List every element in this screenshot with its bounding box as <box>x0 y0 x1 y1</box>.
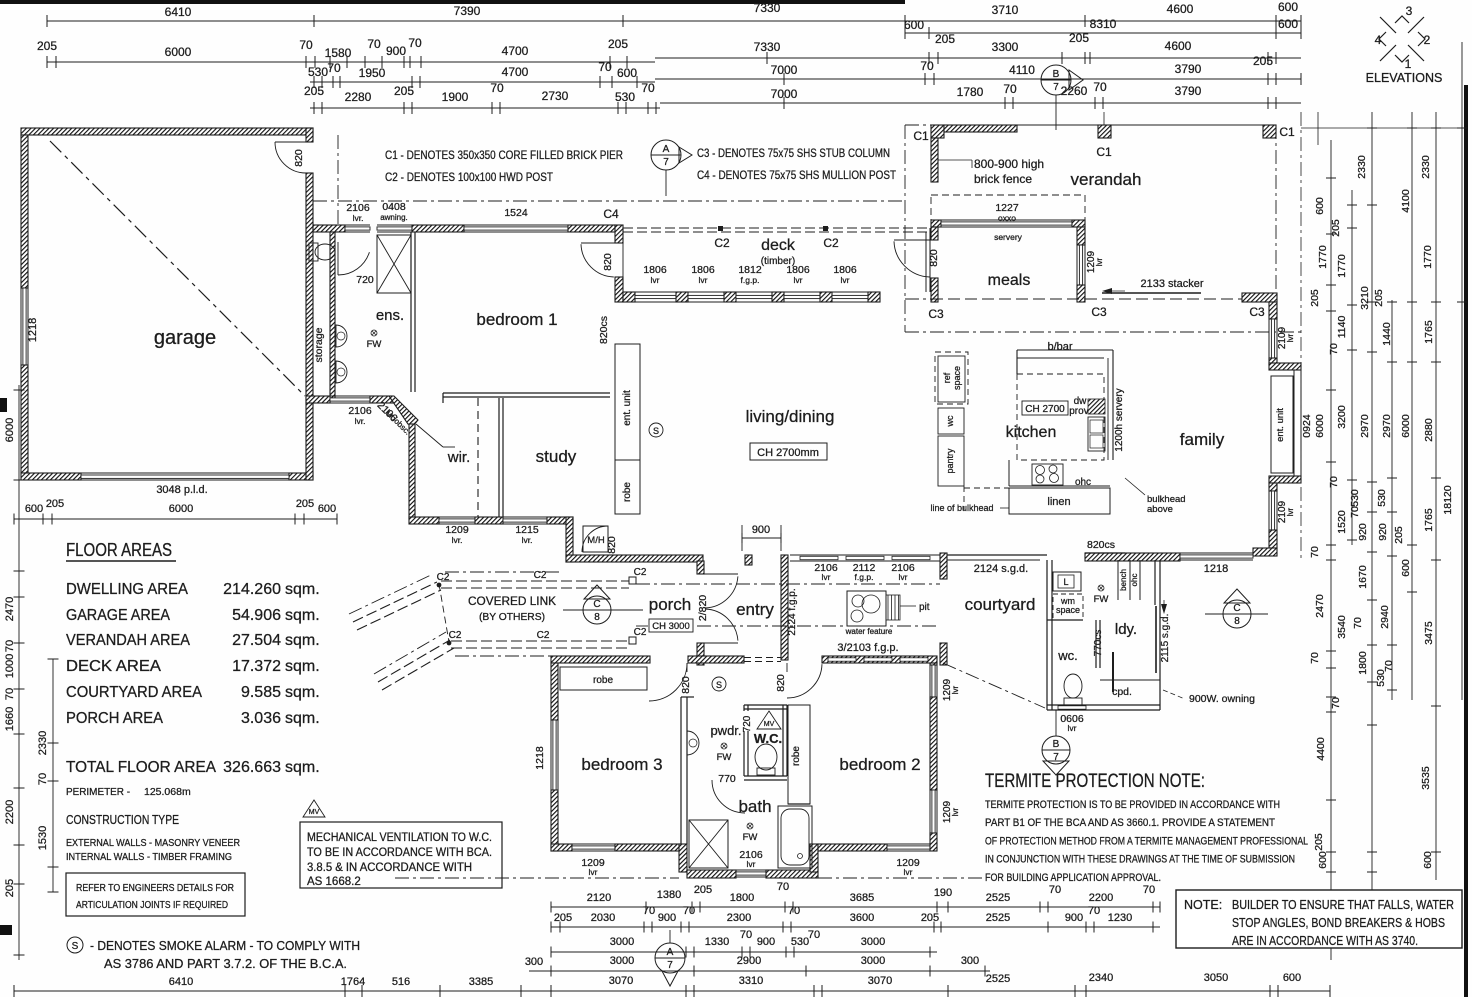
pantry box <box>938 436 964 486</box>
svg-text:lvr: lvr <box>841 275 850 285</box>
svg-text:4600: 4600 <box>1167 2 1194 16</box>
svg-text:1330: 1330 <box>705 936 729 948</box>
svg-text:920: 920 <box>1357 523 1369 541</box>
covered link diagonal pair upper <box>353 582 437 622</box>
servery window dashed box <box>931 195 1085 227</box>
svg-text:water feature: water feature <box>845 627 893 636</box>
svg-text:3475: 3475 <box>1423 621 1435 645</box>
bottom dim row 4 <box>529 970 990 972</box>
robe study <box>615 460 640 514</box>
svg-text:70: 70 <box>327 61 341 75</box>
svg-text:70: 70 <box>598 60 612 74</box>
family south window 1218 <box>1180 552 1253 554</box>
svg-text:770: 770 <box>718 773 736 785</box>
porch C2 posts <box>629 577 636 584</box>
svg-text:1770: 1770 <box>1336 254 1348 278</box>
svg-text:kitchen: kitchen <box>1006 424 1057 441</box>
svg-text:1230: 1230 <box>1108 912 1132 924</box>
svg-text:2730: 2730 <box>542 89 569 103</box>
smoke alarm S living <box>649 423 663 437</box>
top dimension row C <box>47 61 655 63</box>
svg-text:robe: robe <box>791 746 802 766</box>
svg-text:sqm.: sqm. <box>285 632 320 649</box>
svg-text:2/820: 2/820 <box>697 595 709 621</box>
svg-text:sqm.: sqm. <box>285 684 320 701</box>
svg-text:2940: 2940 <box>1379 605 1391 629</box>
eave dashdot line north <box>313 200 905 202</box>
ldy east wall <box>1154 560 1156 605</box>
svg-text:2030: 2030 <box>591 912 615 924</box>
svg-text:3310: 3310 <box>739 975 763 987</box>
svg-text:3000: 3000 <box>610 936 634 948</box>
engineers box <box>66 873 245 916</box>
svg-text:820: 820 <box>602 253 614 271</box>
svg-text:bedroom 1: bedroom 1 <box>476 310 557 329</box>
deck east edge <box>925 232 927 292</box>
svg-text:1580: 1580 <box>325 46 352 60</box>
svg-text:70: 70 <box>1330 697 1342 709</box>
svg-text:lvr.: lvr. <box>452 535 463 545</box>
section marker B7 top <box>1041 65 1071 95</box>
svg-text:C2: C2 <box>823 236 839 250</box>
svg-text:C1: C1 <box>913 129 929 143</box>
svg-text:600: 600 <box>904 18 924 32</box>
pit label <box>900 605 916 607</box>
svg-text:DECK AREA: DECK AREA <box>66 658 161 675</box>
svg-text:1770: 1770 <box>1317 245 1329 269</box>
svg-text:7000: 7000 <box>771 87 798 101</box>
svg-text:2200: 2200 <box>1089 892 1113 904</box>
CH 2700 box <box>1022 401 1068 415</box>
2115 sgd door <box>1155 606 1157 673</box>
svg-text:3.036: 3.036 <box>241 710 281 727</box>
bottom dim row 2 <box>551 926 1160 928</box>
section marker B7 bottom <box>1042 736 1070 764</box>
M/H cupboard <box>583 526 608 552</box>
svg-text:820cs: 820cs <box>1087 539 1115 551</box>
svg-text:C2: C2 <box>449 630 462 641</box>
svg-text:70: 70 <box>641 81 655 95</box>
bath bump south wall <box>687 870 736 878</box>
svg-text:600: 600 <box>318 503 336 515</box>
svg-text:2470: 2470 <box>1314 594 1326 618</box>
svg-text:C3: C3 <box>928 307 944 321</box>
svg-text:516: 516 <box>392 976 410 988</box>
svg-text:3000: 3000 <box>610 955 634 967</box>
svg-text:ent. unit: ent. unit <box>622 390 633 426</box>
svg-text:720: 720 <box>356 274 374 286</box>
wing west wall <box>551 663 558 720</box>
svg-text:FW: FW <box>717 752 732 763</box>
bottom dim row 1 <box>551 906 1160 908</box>
north wall segment <box>412 225 464 232</box>
svg-text:70: 70 <box>1049 884 1061 896</box>
svg-text:7: 7 <box>663 157 669 168</box>
svg-text:MV: MV <box>764 721 775 728</box>
svg-text:B: B <box>1053 69 1060 80</box>
svg-text:2330: 2330 <box>37 731 49 755</box>
svg-text:205: 205 <box>935 32 955 46</box>
svg-text:1950: 1950 <box>359 66 386 80</box>
wing east wall <box>930 663 937 665</box>
courtyard-ldy diagonal dashdot <box>943 663 1045 708</box>
ens basin 2 <box>336 361 347 383</box>
svg-text:2280: 2280 <box>345 90 372 104</box>
svg-text:70: 70 <box>1143 884 1155 896</box>
section marker A7 bottom <box>655 943 685 973</box>
cpd <box>1100 679 1160 681</box>
deck north open edge <box>623 227 930 229</box>
svg-text:205: 205 <box>46 498 64 510</box>
svg-text:ohc: ohc <box>1130 574 1139 587</box>
svg-text:verandah: verandah <box>1071 170 1142 189</box>
svg-text:sqm.: sqm. <box>285 658 320 675</box>
svg-text:TERMITE PROTECTION IS TO B: TERMITE PROTECTION IS TO BE PROVIDED IN … <box>985 799 1280 811</box>
svg-text:OF PROTECTION METHOD FROM: OF PROTECTION METHOD FROM A TERMITE MANA… <box>985 835 1308 847</box>
bedroom1 south wall <box>443 392 610 394</box>
page border artifact top <box>0 0 905 4</box>
svg-text:3710: 3710 <box>992 3 1019 17</box>
svg-text:C3 - DENOTES 75x75 SHS ST: C3 - DENOTES 75x75 SHS STUB COLUMN <box>697 146 890 160</box>
svg-text:1200h servery: 1200h servery <box>1114 388 1125 451</box>
svg-text:- DENOTES SMOKE ALARM - T: - DENOTES SMOKE ALARM - TO COMPLY WITH <box>90 938 360 953</box>
family bay south wall <box>1269 476 1301 483</box>
deck south wall with windows <box>623 292 635 302</box>
svg-text:INTERNAL WALLS - TIMBER FR: INTERNAL WALLS - TIMBER FRAMING <box>66 851 232 863</box>
courtyard 2124 sgd <box>947 554 1047 556</box>
smoke alarm note <box>67 937 83 953</box>
garage north wall <box>21 128 313 135</box>
ens shower <box>377 235 411 293</box>
wc room box <box>743 705 745 711</box>
svg-text:70: 70 <box>1309 652 1321 664</box>
svg-text:CH 3000: CH 3000 <box>652 621 690 632</box>
svg-text:205: 205 <box>554 912 572 924</box>
svg-text:1660: 1660 <box>4 707 16 731</box>
svg-text:2880: 2880 <box>1423 418 1435 442</box>
svg-text:brick fence: brick fence <box>974 172 1032 186</box>
svg-text:linen: linen <box>1047 496 1070 508</box>
svg-text:awning.: awning. <box>380 213 408 222</box>
wing south wall bed3 <box>551 844 572 851</box>
svg-text:1780: 1780 <box>957 85 984 99</box>
wing south wall bed2 <box>818 844 887 851</box>
svg-text:0924: 0924 <box>1301 414 1313 438</box>
family south wall <box>1253 548 1277 556</box>
svg-text:1440: 1440 <box>1381 322 1393 346</box>
svg-text:pwdr.: pwdr. <box>710 723 741 738</box>
svg-text:1140: 1140 <box>1336 316 1348 339</box>
svg-text:C: C <box>1233 603 1240 614</box>
dishwasher hatch <box>1088 399 1105 414</box>
section marker C8 right <box>1223 600 1251 628</box>
svg-text:wc.: wc. <box>1057 648 1078 663</box>
svg-text:800-900 high: 800-900 high <box>974 157 1044 171</box>
walkway axis dashdot upper <box>636 583 940 585</box>
svg-text:54.906: 54.906 <box>232 607 281 624</box>
svg-text:C2: C2 <box>634 627 647 638</box>
water feature pergola <box>887 595 889 620</box>
svg-text:190: 190 <box>934 887 952 899</box>
svg-text:lvr: lvr <box>904 867 913 877</box>
svg-text:4700: 4700 <box>502 44 529 58</box>
kitchen bench island <box>1017 349 1113 351</box>
svg-text:C3: C3 <box>1091 305 1107 319</box>
garage west wall upper <box>21 135 28 288</box>
kitchen cooktop <box>1032 464 1063 485</box>
garage panel lift door <box>81 472 289 474</box>
ens-storage south wall <box>306 396 330 403</box>
svg-text:C1: C1 <box>1096 145 1112 159</box>
svg-text:ldy.: ldy. <box>1115 621 1137 638</box>
entry east wall <box>745 555 752 565</box>
svg-text:300: 300 <box>961 955 979 967</box>
svg-text:storage: storage <box>313 327 325 362</box>
svg-text:70: 70 <box>4 640 16 652</box>
svg-text:3200: 3200 <box>1336 405 1348 429</box>
svg-text:C2: C2 <box>537 630 550 641</box>
svg-text:lvr: lvr <box>1068 723 1077 733</box>
svg-text:70: 70 <box>1328 476 1340 488</box>
svg-text:f.g.p.: f.g.p. <box>855 572 874 582</box>
svg-text:27.504: 27.504 <box>232 632 281 649</box>
garage bottom dim row <box>14 518 337 520</box>
svg-text:wc: wc <box>945 415 955 427</box>
pwdr basin <box>687 731 699 755</box>
house north wall west segment <box>313 225 345 232</box>
svg-text:3540: 3540 <box>1336 615 1348 639</box>
wing north wall west <box>551 656 650 663</box>
ent unit living <box>615 344 640 460</box>
svg-text:lvr.: lvr. <box>353 213 364 223</box>
svg-text:S: S <box>72 941 79 952</box>
svg-text:205: 205 <box>4 879 16 897</box>
svg-text:70: 70 <box>777 881 789 893</box>
svg-text:205: 205 <box>304 84 324 98</box>
svg-text:7: 7 <box>1053 82 1059 93</box>
right dim vertical lines <box>1330 140 1332 960</box>
wing north wall east with 3/2103 windows <box>822 656 937 663</box>
garage east wall upper <box>306 128 313 142</box>
garage diagonal marker <box>50 141 305 396</box>
outline dashdot lower <box>395 877 679 879</box>
svg-text:2: 2 <box>1424 33 1431 47</box>
wir north diagonal <box>416 424 443 447</box>
bottom dim row 3 <box>551 951 937 953</box>
svg-text:DWELLING AREA: DWELLING AREA <box>66 581 188 598</box>
verandah outline dashdot <box>905 124 1276 126</box>
right dim top stubs <box>1301 127 1462 129</box>
meals west wall <box>931 227 938 240</box>
svg-text:600: 600 <box>1422 851 1434 869</box>
svg-text:3070: 3070 <box>868 975 892 987</box>
svg-text:C4 - DENOTES 75x75 SHS MU: C4 - DENOTES 75x75 SHS MULLION POST <box>697 168 897 182</box>
svg-text:205: 205 <box>296 498 314 510</box>
svg-text:S: S <box>653 426 659 436</box>
svg-text:70: 70 <box>490 81 504 95</box>
window 1524 <box>464 224 568 226</box>
svg-text:C4: C4 <box>603 207 619 221</box>
svg-text:EXTERNAL WALLS - MASONRY V: EXTERNAL WALLS - MASONRY VENEER <box>66 837 240 849</box>
svg-text:125.068m: 125.068m <box>144 786 191 798</box>
wing south wall mid <box>475 517 503 524</box>
elevations north symbol <box>1379 16 1425 62</box>
svg-text:2330: 2330 <box>1420 155 1432 179</box>
svg-text:8: 8 <box>1234 616 1240 627</box>
svg-text:600: 600 <box>25 503 43 515</box>
svg-text:MV: MV <box>309 809 320 816</box>
top dimension row D <box>310 81 655 83</box>
svg-text:7390: 7390 <box>454 4 481 18</box>
svg-text:3535: 3535 <box>1420 766 1432 790</box>
verandah north wall segment <box>944 125 1017 132</box>
verandah outline thin <box>931 124 1276 126</box>
storage wall east <box>330 228 335 399</box>
svg-text:600: 600 <box>1278 17 1298 31</box>
robe bed3 <box>560 667 647 690</box>
window 0606 lvr <box>1058 706 1086 709</box>
svg-text:205: 205 <box>1393 526 1405 544</box>
CH 2700mm box <box>750 443 827 460</box>
svg-text:18120: 18120 <box>1442 485 1454 514</box>
svg-text:900W. owning: 900W. owning <box>1189 693 1255 705</box>
covered link diagonal pair lower <box>378 640 450 682</box>
svg-text:2330: 2330 <box>1356 155 1368 179</box>
svg-text:205: 205 <box>1373 289 1385 307</box>
svg-text:1218: 1218 <box>1204 563 1228 575</box>
kitchen dash boundary <box>964 487 1009 489</box>
svg-text:3600: 3600 <box>850 912 874 924</box>
svg-text:space: space <box>1056 605 1080 615</box>
left dim line main <box>18 385 20 960</box>
study south wall <box>566 555 703 562</box>
svg-text:300: 300 <box>525 956 543 968</box>
svg-text:FOR BUILDING APPLICATION AP: FOR BUILDING APPLICATION APPROVAL. <box>985 872 1161 884</box>
svg-text:6000: 6000 <box>4 418 16 442</box>
svg-text:9.585: 9.585 <box>241 684 281 701</box>
svg-text:7000: 7000 <box>771 63 798 77</box>
svg-text:205: 205 <box>1069 31 1089 45</box>
svg-text:2970: 2970 <box>1359 414 1371 438</box>
svg-text:STOP ANGLES, BOND BREAKERS: STOP ANGLES, BOND BREAKERS & HOBS <box>1232 916 1445 930</box>
wir-study dashed rail <box>477 398 479 517</box>
svg-text:lvr: lvr <box>951 807 960 816</box>
svg-text:lvr: lvr <box>822 572 831 582</box>
svg-text:7330: 7330 <box>754 40 781 54</box>
svg-text:70: 70 <box>643 905 655 917</box>
svg-text:AS 3786 AND PART 3.7.2.: AS 3786 AND PART 3.7.2. OF THE B.C.A. <box>104 956 347 971</box>
svg-text:2124 s.g.d.: 2124 s.g.d. <box>974 563 1028 575</box>
svg-text:70: 70 <box>1093 80 1107 94</box>
svg-text:70: 70 <box>1328 343 1340 355</box>
svg-text:1524: 1524 <box>504 207 528 219</box>
eave dashdot stub vertical <box>337 135 339 225</box>
svg-text:C2: C2 <box>714 236 730 250</box>
svg-text:meals: meals <box>988 272 1031 289</box>
svg-text:robe: robe <box>593 675 613 686</box>
CH 3000 box <box>649 619 693 632</box>
svg-text:720: 720 <box>742 715 753 732</box>
svg-text:C2 - DENOTES 100x100 HWD: C2 - DENOTES 100x100 HWD POST <box>385 170 554 184</box>
svg-text:1520: 1520 <box>1336 510 1348 534</box>
wc toilet <box>755 744 777 770</box>
kitchen sink <box>1088 417 1105 451</box>
svg-text:70: 70 <box>1088 905 1100 917</box>
svg-text:3685: 3685 <box>850 892 874 904</box>
svg-text:REFER TO ENGINEERS DETAILS: REFER TO ENGINEERS DETAILS FOR <box>76 882 234 894</box>
window 2106 lvr <box>345 224 370 226</box>
svg-text:1765: 1765 <box>1423 508 1435 532</box>
svg-text:2525: 2525 <box>986 892 1010 904</box>
svg-text:2470: 2470 <box>4 597 16 621</box>
svg-text:COVERED LINK: COVERED LINK <box>468 596 556 608</box>
covered link horizontal pair upper <box>441 580 629 582</box>
bed2-robe south wall <box>788 803 810 805</box>
svg-text:2300: 2300 <box>727 912 751 924</box>
wir west wall <box>409 424 415 519</box>
bedroom1 east wall lower <box>615 277 623 302</box>
svg-text:COURTYARD AREA: COURTYARD AREA <box>66 684 202 701</box>
deck west edge <box>622 232 624 292</box>
mechanical ventilation box <box>300 822 502 888</box>
svg-text:70: 70 <box>788 905 800 917</box>
MV triangle <box>757 711 781 729</box>
ens-bed1 wall <box>410 232 412 392</box>
porch east wall <box>697 561 704 574</box>
section marker A7 top <box>651 140 681 170</box>
svg-text:2340: 2340 <box>1089 972 1113 984</box>
window 0408 awning <box>377 224 412 226</box>
svg-text:GARAGE AREA: GARAGE AREA <box>66 607 170 624</box>
svg-text:family: family <box>1180 430 1225 449</box>
svg-text:wir.: wir. <box>447 449 471 466</box>
svg-text:lvr.: lvr. <box>355 416 366 426</box>
courtyard east piers <box>940 553 947 579</box>
family east wall bottom <box>1269 483 1277 491</box>
svg-text:2525: 2525 <box>986 912 1010 924</box>
verandah west wall segment <box>931 138 938 182</box>
meals west wall lower <box>931 278 938 302</box>
svg-text:IN CONJUNCTION WITH THESE: IN CONJUNCTION WITH THESE DRAWINGS AT TH… <box>985 854 1295 866</box>
svg-text:bath: bath <box>738 797 771 816</box>
north wall segment to C4 <box>568 225 615 232</box>
svg-text:900: 900 <box>1065 912 1083 924</box>
top dimension row A <box>47 20 1301 22</box>
svg-text:70: 70 <box>1003 82 1017 96</box>
svg-text:600: 600 <box>1314 197 1326 215</box>
svg-text:1770: 1770 <box>1422 245 1434 269</box>
svg-text:0408: 0408 <box>382 201 406 213</box>
right dim ticks <box>1326 177 1336 179</box>
svg-text:70: 70 <box>37 773 49 785</box>
svg-text:FLOOR AREAS: FLOOR AREAS <box>66 540 172 560</box>
svg-text:70: 70 <box>1352 617 1364 629</box>
svg-text:L: L <box>1063 577 1068 587</box>
svg-text:6410: 6410 <box>169 976 193 988</box>
covered link horizontal pair lower <box>451 640 629 642</box>
svg-text:600: 600 <box>1400 559 1412 577</box>
svg-text:lvr.: lvr. <box>522 535 533 545</box>
svg-text:4700: 4700 <box>502 65 529 79</box>
svg-text:1800: 1800 <box>730 892 754 904</box>
family bay north wall <box>1269 363 1301 370</box>
svg-text:garage: garage <box>154 327 216 349</box>
svg-text:3790: 3790 <box>1175 84 1202 98</box>
svg-text:1000: 1000 <box>4 654 16 678</box>
svg-text:above: above <box>1147 504 1173 515</box>
svg-text:1530: 1530 <box>37 826 49 850</box>
svg-text:robe: robe <box>622 482 633 502</box>
